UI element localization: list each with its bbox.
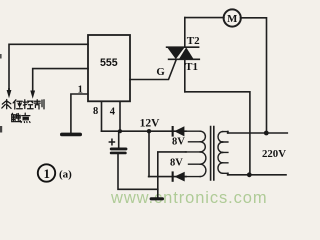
scan mark left edge upper xyxy=(0,54,2,59)
transformer core xyxy=(211,127,214,181)
svg-text:4: 4 xyxy=(110,107,116,118)
char 制 xyxy=(34,100,44,109)
220V bottom line xyxy=(228,174,286,176)
IC 555 box xyxy=(88,35,130,101)
char 控 xyxy=(23,100,33,109)
char 水 xyxy=(2,100,11,109)
motor M circle xyxy=(224,9,241,26)
svg-text:555: 555 xyxy=(100,57,118,69)
capacitor plus sign xyxy=(109,139,116,146)
ground pin1 xyxy=(60,133,82,137)
svg-text:12V: 12V xyxy=(140,118,161,130)
wire center tap to ground xyxy=(158,152,186,198)
text 水位控制 (drawn glyphs) xyxy=(2,100,44,110)
pin4 stub xyxy=(119,101,121,131)
transformer primary winding xyxy=(218,132,228,174)
text 触点 (drawn glyphs) xyxy=(12,113,31,122)
capacitor C1 lead top xyxy=(118,131,120,147)
svg-text:8V: 8V xyxy=(170,158,183,169)
ground secondary center tap xyxy=(150,197,164,200)
junction dot 12V branch xyxy=(147,129,151,133)
svg-text:1: 1 xyxy=(43,166,50,181)
wire triac bottom to 220V lower line xyxy=(185,92,250,175)
char 触 xyxy=(12,113,21,121)
wire pin6 left xyxy=(33,69,88,91)
triac top bar xyxy=(167,46,199,48)
svg-text:1: 1 xyxy=(78,85,83,96)
svg-text:8: 8 xyxy=(93,106,98,117)
diode D1 triangle xyxy=(174,126,184,136)
svg-text:220V: 220V xyxy=(262,148,286,160)
scan mark left edge lower xyxy=(0,126,2,133)
svg-text:www.cntronics.com: www.cntronics.com xyxy=(110,189,268,207)
12V rail wire xyxy=(102,130,187,132)
diode D2 bar xyxy=(172,171,174,181)
pin8 stub xyxy=(101,101,103,131)
svg-text:T1: T1 xyxy=(185,61,198,73)
electrode arrow 1 xyxy=(7,90,12,98)
char 点 xyxy=(21,113,30,122)
capacitor plates xyxy=(110,148,128,151)
svg-text:M: M xyxy=(227,13,237,25)
primary stubs xyxy=(227,132,229,175)
char 位 xyxy=(13,100,22,109)
capacitor C1 lead bottom / return wire xyxy=(118,154,158,189)
wire 12V branch down xyxy=(148,131,150,176)
svg-text:G: G xyxy=(156,66,165,78)
wire pin2 top-left xyxy=(9,44,88,90)
triac vertical T2 side xyxy=(184,18,186,48)
electrode arrow 2 xyxy=(30,91,35,99)
svg-text:T2: T2 xyxy=(187,35,200,47)
figure label circled 1 xyxy=(38,164,55,181)
triac right triangle xyxy=(179,47,194,59)
transformer secondary winding xyxy=(186,131,206,176)
junction dot motor branch xyxy=(264,131,269,136)
220V top line xyxy=(228,132,288,134)
svg-text:(a): (a) xyxy=(59,169,72,181)
G gate wire xyxy=(130,60,176,80)
triac vertical T1 side down xyxy=(184,59,186,92)
triac left triangle xyxy=(167,47,184,59)
triac bottom bar xyxy=(169,58,200,60)
junction dot triac branch xyxy=(247,172,252,177)
wire bottom diode line xyxy=(149,176,186,178)
diode D2 triangle xyxy=(174,172,184,182)
wire triac top to motor xyxy=(185,17,224,19)
junction dot pin4 xyxy=(118,129,122,133)
diode D1 bar xyxy=(172,126,174,137)
wire pin1 to ground xyxy=(71,94,88,133)
wire motor to right corner and down xyxy=(241,18,267,133)
svg-text:8V: 8V xyxy=(172,137,185,148)
